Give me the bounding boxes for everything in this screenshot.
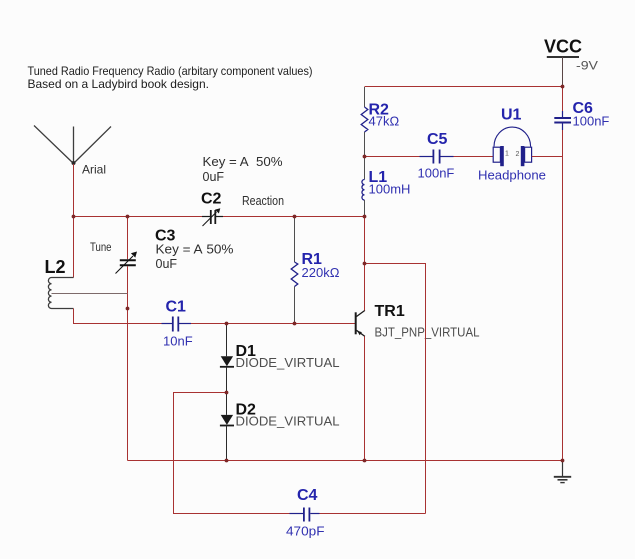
svg-text:-9V: -9V (576, 59, 598, 73)
svg-text:C2: C2 (201, 191, 222, 208)
wire: VCC stem (562, 57, 564, 87)
capacitor C1 (162, 317, 192, 332)
wire: diode chain leads (226, 324, 228, 461)
svg-text:C5: C5 (427, 131, 448, 148)
svg-text:VCC: VCC (544, 37, 582, 57)
capacitor C3 (variable, tune) (116, 256, 136, 274)
power VCC (547, 56, 579, 58)
svg-text:100nF: 100nF (418, 166, 455, 181)
wire: L2 tap (52, 293, 128, 295)
resistor R1 (291, 217, 298, 323)
diode D1 (220, 356, 234, 367)
wire: left vertical down to L2 (73, 217, 75, 278)
svg-text:DIODE_VIRTUAL: DIODE_VIRTUAL (236, 356, 340, 370)
svg-text:2: 2 (516, 151, 520, 158)
wire: top supply net (365, 86, 563, 88)
capacitor C6 (554, 111, 571, 130)
svg-text:U1: U1 (501, 107, 522, 124)
wire: VCC rail upper (562, 87, 564, 112)
wire: L2 bottom step down to C1 net (74, 309, 162, 324)
svg-text:Headphone: Headphone (478, 168, 546, 183)
headphone U1 (493, 127, 531, 162)
svg-text:C1: C1 (166, 299, 187, 316)
wire: ground net (128, 460, 563, 462)
capacitor C4 (290, 508, 320, 522)
wire: C5 net left (365, 156, 420, 158)
svg-text:DIODE_VIRTUAL: DIODE_VIRTUAL (236, 415, 340, 429)
wire: C1 to transistor base (191, 323, 356, 325)
resistor R2 (361, 87, 368, 156)
wire: tune branch lower (127, 266, 129, 460)
svg-text:Key = A 50%: Key = A 50% (203, 155, 283, 169)
title annotation text (28, 64, 313, 91)
wire: main top net (left of C2) (74, 216, 203, 218)
diode D2 (220, 415, 234, 426)
wire: C4 net left (174, 393, 290, 514)
antenna (Arial) (34, 126, 111, 164)
svg-text:TR1: TR1 (375, 303, 405, 320)
inductor L2 (48, 278, 73, 309)
wire: collector rail up / emitter rail down (364, 217, 366, 461)
wire: C4 net right (320, 513, 426, 515)
wire: C5 to U1 (454, 156, 494, 158)
antenna apex junction (72, 161, 76, 165)
svg-text:470pF: 470pF (286, 524, 325, 539)
wire: main top net (right of C2) (223, 216, 365, 218)
wire: VCC rail lower (562, 130, 564, 461)
capacitor C2 (variable, reaction) (202, 210, 223, 226)
svg-text:Tune: Tune (90, 240, 112, 254)
svg-text:100nF: 100nF (573, 114, 610, 129)
svg-text:Based on a Ladybird book desig: Based on a Ladybird book design. (28, 77, 209, 91)
capacitor C5 (420, 150, 454, 164)
svg-text:C4: C4 (297, 487, 318, 504)
svg-text:1: 1 (505, 151, 509, 158)
svg-text:0uF: 0uF (156, 257, 178, 271)
svg-text:L2: L2 (45, 257, 66, 277)
svg-text:Arial: Arial (82, 163, 106, 177)
svg-text:47kΩ: 47kΩ (369, 114, 400, 129)
inductor L1 (362, 157, 365, 217)
svg-text:Tuned Radio Frequency Radio (a: Tuned Radio Frequency Radio (arbitary co… (28, 64, 313, 78)
svg-text:0uF: 0uF (203, 170, 225, 184)
svg-text:10nF: 10nF (163, 334, 193, 349)
wire: tune branch upper (127, 217, 129, 260)
wire: antenna lead down to main net (73, 164, 75, 217)
wire: feedback top (365, 264, 426, 514)
svg-text:100mH: 100mH (369, 182, 411, 197)
wire: U1 to supply rail (532, 156, 563, 158)
svg-text:Key = A 50%: Key = A 50% (156, 243, 234, 257)
ground (554, 461, 571, 483)
transistor TR1 (PNP) (356, 310, 365, 336)
svg-text:BJT_PNP_VIRTUAL: BJT_PNP_VIRTUAL (375, 325, 480, 339)
junction on tune branch (126, 307, 130, 311)
svg-text:Reaction: Reaction (242, 194, 284, 208)
svg-text:220kΩ: 220kΩ (302, 265, 340, 280)
